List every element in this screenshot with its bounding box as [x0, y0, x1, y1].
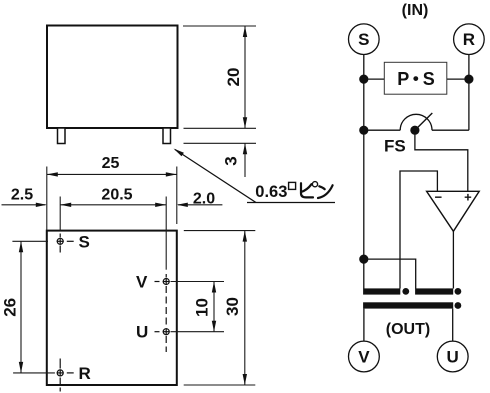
- svg-text:−: −: [435, 189, 443, 204]
- dimension line 30: [243, 231, 247, 385]
- svg-text:S: S: [423, 69, 435, 89]
- svg-text:V: V: [358, 348, 370, 367]
- polarity dot right winding: [455, 288, 462, 295]
- extension line package top right: [184, 230, 256, 232]
- extension line pin bottom: [184, 142, 257, 144]
- svg-text:S: S: [358, 30, 369, 49]
- svg-text:3: 3: [221, 156, 240, 165]
- junction dot S branch: [359, 255, 368, 264]
- svg-text:2.5: 2.5: [11, 187, 33, 204]
- side view right pin: [163, 128, 171, 144]
- svg-text:+: +: [464, 189, 472, 204]
- svg-text:R: R: [463, 30, 475, 49]
- extension line U pin level: [171, 331, 225, 333]
- dimension line 10: [212, 282, 216, 332]
- terminal V: [349, 341, 380, 372]
- pin U symbol: [163, 328, 170, 335]
- terminal U: [437, 341, 468, 372]
- package bottom view outline: [47, 231, 177, 385]
- terminal S: [349, 24, 380, 55]
- fuse FS center dot: [410, 126, 419, 135]
- transformer primary winding left bar: [363, 288, 400, 294]
- svg-text:20: 20: [224, 68, 243, 87]
- svg-text:25: 25: [102, 155, 120, 172]
- svg-text:0.63: 0.63: [255, 183, 287, 201]
- katakana N: [319, 186, 324, 189]
- wire FS left: [364, 129, 400, 131]
- extension line package right: [176, 167, 178, 225]
- katakana PI (hi + handakuten): [301, 183, 313, 197]
- dimension line 26: [19, 241, 23, 373]
- side view left pin: [58, 128, 66, 144]
- wire FS right to R: [432, 129, 469, 131]
- box P.S: [384, 62, 447, 94]
- polarity dot secondary winding: [455, 302, 462, 309]
- svg-text:U: U: [136, 323, 148, 342]
- svg-text:V: V: [136, 273, 148, 292]
- extension line R pin level: [13, 372, 55, 374]
- leader arrow to pin: [174, 149, 336, 203]
- junction dot FS left: [359, 126, 368, 135]
- svg-text:20.5: 20.5: [101, 187, 132, 204]
- pin V symbol: [163, 278, 170, 285]
- pin R centerline dashes: [60, 359, 73, 392]
- dimension line 20.5: [60, 203, 166, 207]
- extension line package bottom: [184, 127, 257, 129]
- wire op-amp output: [452, 231, 454, 288]
- package side view outline: [47, 26, 178, 129]
- extension line S pin column: [59, 197, 61, 231]
- dimension line 2.0: [177, 203, 223, 207]
- pin V centerline dashes: [155, 274, 167, 352]
- extension line S pin level: [12, 240, 48, 242]
- dimension line 25: [47, 172, 177, 176]
- extension line top (height 20): [183, 25, 256, 27]
- terminal R: [454, 24, 485, 55]
- junction dot R/P.S: [464, 75, 473, 84]
- wire op-amp minus feedback to winding: [400, 171, 437, 289]
- wire S vertical: [363, 55, 365, 289]
- svg-text:FS: FS: [384, 136, 406, 155]
- svg-text:U: U: [447, 348, 459, 367]
- svg-text:S: S: [79, 232, 90, 251]
- wire FS tap to op-amp plus input: [415, 130, 468, 191]
- wire V vertical: [363, 309, 365, 342]
- extension line package bottom right: [184, 384, 256, 386]
- extension line V pin level: [171, 281, 225, 283]
- extension line package left: [46, 167, 48, 231]
- svg-text:(OUT): (OUT): [386, 321, 430, 338]
- svg-text:(IN): (IN): [402, 2, 429, 19]
- svg-text:10: 10: [192, 298, 211, 317]
- wire U vertical: [452, 309, 454, 342]
- dimension line 2.5: [2, 203, 47, 207]
- svg-text:30: 30: [223, 297, 242, 316]
- fuse FS arc: [400, 114, 432, 130]
- junction dot S/P.S: [359, 75, 368, 84]
- wire P.S right stub: [447, 78, 469, 80]
- transformer primary winding right bar: [415, 288, 453, 294]
- wire S branch to right winding: [364, 259, 416, 288]
- wire P.S left stub: [364, 78, 385, 80]
- pin S symbol: [57, 238, 64, 245]
- dimension line 3: [243, 143, 247, 177]
- wire R vertical: [468, 55, 470, 131]
- extension line V pin column: [165, 197, 167, 270]
- svg-text:26: 26: [0, 298, 19, 317]
- pin S centerline dashes: [60, 234, 73, 253]
- op-amp U1: [427, 189, 480, 231]
- polarity dot left winding: [402, 288, 409, 295]
- fuse FS slash: [415, 113, 432, 130]
- transformer secondary winding bar: [363, 302, 453, 308]
- svg-text:R: R: [79, 364, 91, 383]
- pin R symbol: [57, 369, 64, 376]
- svg-text:P: P: [397, 69, 409, 89]
- pin size label 0.63 square pin: [255, 182, 332, 202]
- dimension line 20: [243, 26, 247, 128]
